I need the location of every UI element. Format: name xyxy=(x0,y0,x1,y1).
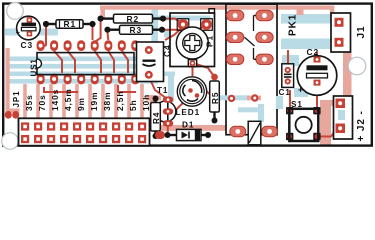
svg-text:R4: R4 xyxy=(152,112,161,124)
svg-text:10h: 10h xyxy=(141,94,151,111)
resistor R5 xyxy=(210,74,220,124)
diode D1 xyxy=(155,121,211,141)
svg-text:+: + xyxy=(298,85,304,95)
trace left rail xyxy=(6,48,10,112)
jumper column traces xyxy=(23,84,27,122)
wide copper wires (pink) xyxy=(6,6,352,146)
wire top rail crossing relay xyxy=(227,6,276,10)
svg-text:R5: R5 xyxy=(211,92,220,104)
mounting hole bottom left xyxy=(2,133,19,150)
wires right of relay PK1 xyxy=(281,14,331,24)
svg-text:70s: 70s xyxy=(37,94,47,111)
svg-text:S1: S1 xyxy=(291,100,303,109)
bottom copper wires (light blue) xyxy=(5,8,345,120)
svg-text:R1: R1 xyxy=(64,19,77,29)
node JP1 side pads xyxy=(5,111,12,119)
wire stub in J2 xyxy=(338,110,345,120)
svg-text:19m: 19m xyxy=(89,92,99,111)
svg-text:P1: P1 xyxy=(205,35,215,47)
svg-text:9m: 9m xyxy=(76,97,86,111)
wire bus under IC US1 xyxy=(9,57,158,62)
svg-text:2,5h: 2,5h xyxy=(115,91,125,111)
capacitor C3 xyxy=(16,16,40,50)
svg-text:US1: US1 xyxy=(30,58,39,76)
svg-text:R3: R3 xyxy=(130,25,143,35)
board outline frame xyxy=(3,4,372,146)
svg-text:C1: C1 xyxy=(279,88,291,97)
svg-text:J1: J1 xyxy=(356,26,367,39)
capacitor C1 xyxy=(279,64,294,97)
svg-text:C3: C3 xyxy=(21,40,34,50)
svg-text:PK1: PK1 xyxy=(288,14,299,36)
resistor R3 xyxy=(104,25,165,35)
svg-text:LED1: LED1 xyxy=(176,108,201,117)
svg-text:D1: D1 xyxy=(182,121,194,130)
svg-text:R2: R2 xyxy=(127,14,140,24)
trace top rail xyxy=(100,6,334,10)
svg-text:35s: 35s xyxy=(24,94,34,111)
svg-text:C2: C2 xyxy=(307,47,320,57)
mounting hole top left xyxy=(7,3,24,20)
node pad xyxy=(251,94,258,101)
thin copper wires (red) xyxy=(41,19,346,137)
mounting hole right xyxy=(348,57,366,75)
transistor T1 xyxy=(157,86,176,127)
IC US1 pads (top row, pins 1-8) xyxy=(37,40,140,51)
svg-text:T1: T1 xyxy=(157,86,168,95)
jumper block JP1 xyxy=(19,118,150,145)
relay PK1 xyxy=(217,4,283,135)
jumper labels xyxy=(24,88,151,111)
potentiometer P1 xyxy=(170,9,215,67)
svg-text:JP1: JP1 xyxy=(12,91,21,108)
trace top rail drop xyxy=(297,8,304,15)
svg-text:C4: C4 xyxy=(162,44,172,57)
wire vertical right of R2/R3 xyxy=(152,8,159,58)
svg-text:38m: 38m xyxy=(102,92,112,111)
wire into P1 top xyxy=(152,16,211,21)
switch S1 xyxy=(286,100,321,141)
IC US1 pads (bottom row, pins 9-16) xyxy=(37,74,140,85)
connector J1 xyxy=(331,13,367,52)
resistor R1 xyxy=(43,19,96,29)
IC US1 xyxy=(30,53,135,77)
svg-text:4,5m: 4,5m xyxy=(63,88,73,111)
svg-text:+ J2 -: + J2 - xyxy=(356,110,367,141)
trace right bottom xyxy=(320,100,331,145)
svg-text:140s: 140s xyxy=(50,89,60,111)
capacitor C2 xyxy=(297,47,337,95)
node pad xyxy=(228,95,235,102)
resistor R4 xyxy=(151,96,161,140)
wire near C3 xyxy=(5,29,58,36)
wire vertical down to T1 xyxy=(168,72,174,102)
diode D2 (below relay) xyxy=(230,121,278,145)
wire stub right of R3 xyxy=(164,30,171,38)
wire stub left of C2 xyxy=(294,88,308,97)
svg-text:5h: 5h xyxy=(128,99,138,111)
LED LED1 xyxy=(176,77,207,117)
capacitor C4 xyxy=(137,42,173,82)
connector J2 xyxy=(334,96,368,142)
wire crossing below relay coil xyxy=(217,95,249,100)
trace bottom middle xyxy=(149,125,237,131)
svg-text:+: + xyxy=(16,30,21,37)
resistor R2 xyxy=(98,14,167,24)
